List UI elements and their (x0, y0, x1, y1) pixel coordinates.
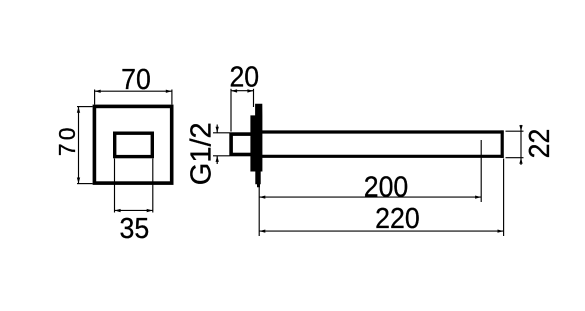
side view: spout arm end cap (501, 130, 504, 158)
dimension 22: top arrowhead (pointing down) (519, 125, 522, 131)
dimension G1/2: top arrowhead (pointing down) (216, 127, 219, 133)
side view: spout arm top line (260, 130, 504, 133)
dimension 70 top: right arrowhead (166, 90, 172, 93)
dimension 20: left arrowhead (231, 89, 237, 92)
dimension 70 left: extension line top (77, 106, 93, 108)
dimension 22: extension line top (506, 130, 524, 132)
svg-text:70: 70 (54, 125, 80, 157)
side view: escutcheon flange (filled profile) (250, 104, 262, 188)
dimension 200: extension line right (480, 140, 482, 202)
dimension 20: extension line left (230, 89, 232, 132)
dimension 22: dimension line (520, 125, 522, 165)
dimension 70 top: extension line left (94, 90, 96, 105)
dimension G1/2: dimension line bottom segment (216, 156, 218, 164)
dimension 20: right arrowhead (247, 89, 253, 92)
dimension 70 left: bottom arrowhead (77, 178, 80, 184)
side view: G1/2 nipple square (231, 134, 252, 154)
dimension 35: extension line right (152, 159, 154, 213)
dimension 35: extension line left (114, 159, 116, 213)
dimension 20: dimension line (231, 90, 254, 92)
svg-text:220: 220 (375, 202, 420, 234)
dimension 200: dimension line (259, 196, 481, 198)
svg-text:70: 70 (121, 63, 151, 95)
dimension 22: bottom arrowhead (pointing up) (519, 158, 522, 164)
dimension 220: left arrowhead (259, 230, 265, 233)
dimension 220: extension line right (503, 159, 505, 237)
dimension 70 top: dimension line (95, 90, 172, 92)
dimension 35: dimension line (115, 209, 153, 211)
dimension 20: extension line right (253, 89, 255, 107)
dimension 220: dimension line (259, 230, 503, 232)
dimension G1/2: extension line bottom (213, 155, 230, 157)
dimension 220: right arrowhead (498, 230, 504, 233)
dimension 22: extension line bottom (506, 157, 524, 159)
dimension 70 top: left arrowhead (95, 90, 101, 93)
dimension G1/2: dimension line top segment (216, 125, 218, 133)
dimension 70 left: dimension line (78, 107, 80, 184)
svg-text:22: 22 (523, 129, 555, 159)
dimension 35: left arrowhead (115, 209, 121, 212)
svg-text:20: 20 (229, 60, 259, 92)
dimension 70 left: extension line bottom (77, 183, 93, 185)
front view: wall flange outer square (94, 106, 171, 183)
dimension 200: extension line left (shared with 220) (258, 187, 260, 236)
dimension 200: left arrowhead (259, 196, 265, 199)
svg-text:35: 35 (120, 212, 150, 244)
dimension 70 left: top arrowhead (77, 107, 80, 113)
front view: spout cross-section inner rectangle (115, 133, 153, 156)
dimension 200: right arrowhead (475, 196, 481, 199)
side view: spout arm bottom line (258, 155, 504, 158)
dimension G1/2: extension line top (213, 132, 230, 134)
svg-text:200: 200 (364, 170, 409, 202)
dimension 70 top: extension line right (171, 90, 173, 105)
svg-text:G1/2: G1/2 (185, 122, 217, 185)
dimension G1/2: bottom arrowhead (pointing up) (216, 156, 219, 162)
dimension 35: right arrowhead (147, 209, 153, 212)
